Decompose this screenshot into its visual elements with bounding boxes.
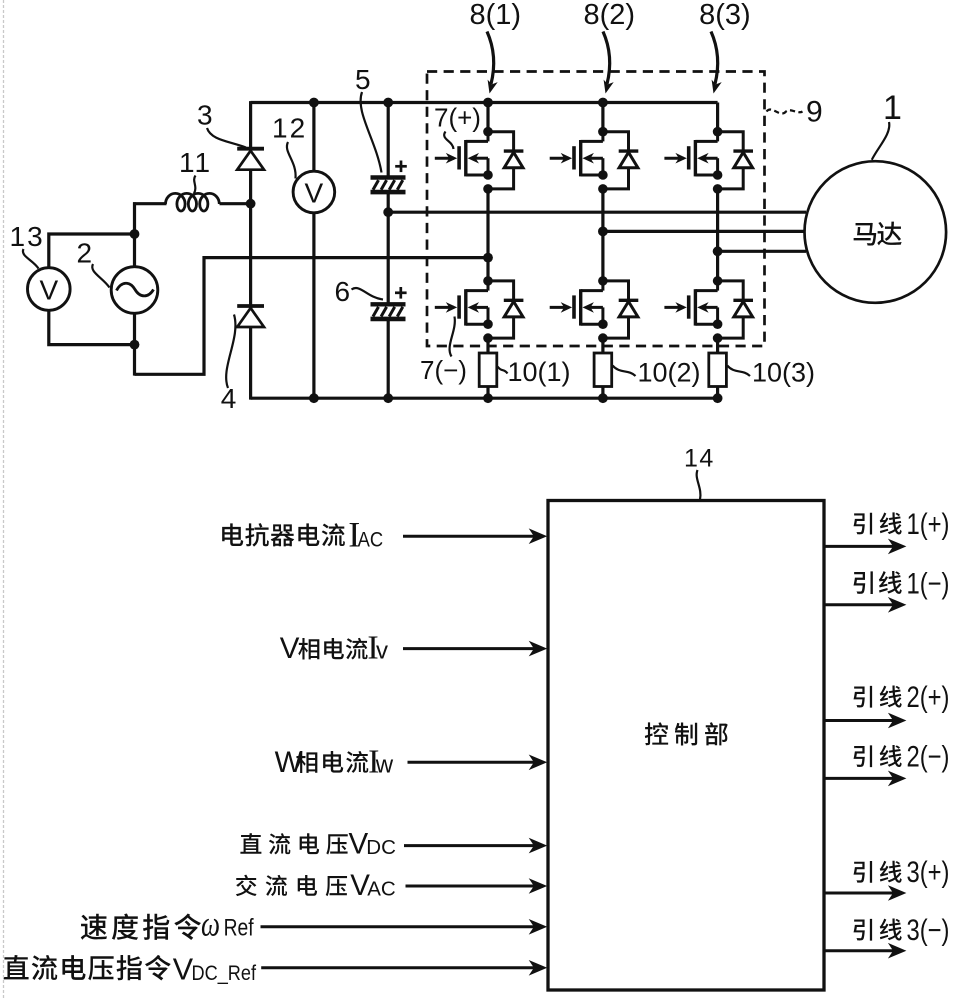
- label 6 leader: [352, 288, 384, 299]
- label W-phase current Iw (hanzi): [296, 751, 368, 773]
- lead-wire 1(-) output arrow: [824, 603, 893, 606]
- label 13 leader: [23, 249, 39, 269]
- label 7(+) leader: [444, 132, 453, 150]
- svg-text:DC_Ref: DC_Ref: [192, 962, 257, 985]
- node AC / leg-1 midpoint: [483, 253, 493, 263]
- resistor 10(1): [479, 353, 497, 387]
- node bottom bus / leg 2: [598, 393, 608, 403]
- svg-text:W: W: [275, 746, 303, 779]
- label DC voltage Vdc (hanzi): [240, 833, 347, 854]
- resistor 10(2): [594, 353, 612, 387]
- label 10(2) leader: [613, 366, 636, 377]
- label 14 leader: [697, 470, 701, 500]
- svg-text:2(−): 2(−): [907, 741, 950, 774]
- svg-text:AC: AC: [367, 877, 396, 900]
- svg-text:8(1): 8(1): [470, 0, 522, 31]
- transistor Q3 upper (leg 3): [664, 127, 753, 194]
- lead-wire 3(+) output arrow: [824, 892, 893, 895]
- capacitor 6: [371, 304, 406, 319]
- svg-text:V: V: [280, 632, 300, 665]
- wire leg-3 foot: [716, 387, 719, 399]
- svg-text:9: 9: [806, 96, 823, 129]
- svg-text:V: V: [39, 274, 58, 305]
- wire capacitor leg lower: [387, 318, 390, 398]
- node capacitor midpoint: [383, 207, 393, 217]
- wire capacitor leg middle: [387, 194, 390, 304]
- capacitor 5 plus: [395, 161, 407, 173]
- svg-text:V: V: [305, 177, 324, 208]
- svg-text:AC: AC: [358, 528, 384, 552]
- svg-text:7(+): 7(+): [434, 102, 481, 132]
- label DC voltage command (hanzi): [4, 955, 171, 981]
- label 10(3) leader: [727, 366, 750, 377]
- wire top DC+ bus: [251, 101, 718, 104]
- svg-text:w: w: [375, 752, 394, 779]
- svg-text:14: 14: [684, 445, 715, 473]
- svg-text:10(2): 10(2): [638, 358, 701, 388]
- wire leg-2 lower: [601, 338, 604, 353]
- node rectifier midpoint: [246, 199, 256, 209]
- wire voltmeter-13 top branch: [49, 234, 135, 268]
- label 5 leader: [361, 92, 382, 173]
- svg-text:8(2): 8(2): [584, 0, 636, 31]
- AC source 2: [111, 267, 158, 314]
- svg-text:DC: DC: [366, 836, 396, 859]
- wire leg-1 foot: [486, 387, 489, 399]
- label lead-wire 1(−) (hanzi): [854, 571, 902, 594]
- label 4 leader: [226, 315, 235, 389]
- transistor Q2 lower (leg 2): [550, 276, 639, 343]
- svg-text:1(+): 1(+): [907, 508, 950, 541]
- Vac input arrow: [406, 885, 535, 888]
- wire leg-3 mid: [716, 189, 719, 281]
- node AC upper: [130, 229, 140, 239]
- Vdc-ref input arrow: [261, 966, 534, 969]
- node bottom bus / capacitor leg: [383, 393, 393, 403]
- IAC input arrow: [403, 535, 534, 538]
- wire leg-1 upper: [486, 103, 489, 132]
- svg-text:3(+): 3(+): [907, 856, 950, 889]
- Vdc input arrow: [404, 844, 534, 847]
- AC source 2 sine: [117, 283, 154, 296]
- label lead-wire 3(−) (hanzi): [854, 918, 902, 940]
- wire leg-2 upper: [601, 103, 604, 132]
- Iw input arrow: [408, 761, 535, 764]
- label 12 leader: [287, 142, 296, 179]
- wire leg-1 mid: [486, 189, 489, 281]
- svg-text:1(−): 1(−): [907, 567, 950, 600]
- motor 1 text: [854, 222, 902, 246]
- label 7(-) leader: [450, 317, 455, 357]
- label lead-wire 2(−) (hanzi): [854, 745, 902, 767]
- node top bus / leg 1: [483, 98, 493, 108]
- svg-text:v: v: [376, 637, 388, 664]
- wire AC source vertical lower: [133, 313, 136, 376]
- wire leg-2 mid: [601, 189, 604, 281]
- label 8(1) leader arrow: [487, 32, 494, 85]
- svg-text:10(1): 10(1): [508, 357, 571, 387]
- capacitor 5: [371, 178, 406, 193]
- motor 1 circle: [805, 161, 947, 303]
- lead-wire 2(+) output arrow: [824, 719, 893, 722]
- transistor Q3 lower (leg 3): [664, 276, 753, 343]
- control block 14 text: [645, 722, 728, 745]
- wire leg-2 foot: [601, 387, 604, 399]
- svg-text:11: 11: [179, 147, 212, 178]
- omega-ref input arrow: [261, 925, 535, 928]
- transistor Q1 upper (leg 1): [435, 127, 524, 194]
- label speed command (hanzi): [81, 914, 201, 940]
- wire inductor input: [133, 202, 166, 205]
- label AC voltage Vac (hanzi): [236, 875, 347, 897]
- wire voltmeter-13 bottom branch: [49, 310, 135, 345]
- inverter dashed box 9: [427, 72, 765, 347]
- wire capacitor leg upper: [387, 103, 390, 177]
- label 10(1) leader: [498, 367, 508, 374]
- wire rectifier leg vertical: [249, 101, 252, 400]
- node bottom bus / leg 1: [483, 393, 493, 403]
- scan artifact left edge: [3, 0, 5, 1000]
- label 11 leader: [194, 176, 196, 194]
- control block 14 box: [548, 501, 824, 991]
- label 8(2) leader arrow: [603, 32, 610, 85]
- node top bus / voltmeter: [309, 98, 319, 108]
- capacitor 6 plus: [395, 287, 407, 299]
- svg-text:3(−): 3(−): [907, 914, 950, 947]
- wire leg-1 lower: [486, 338, 489, 353]
- svg-text:8(3): 8(3): [699, 0, 751, 31]
- voltmeter 12: [293, 171, 335, 213]
- wire phase-U line to motor: [388, 211, 806, 214]
- node phase W: [713, 246, 723, 256]
- resistor 10(3): [709, 353, 727, 387]
- wire leg-3 lower: [716, 338, 719, 353]
- svg-text:10(3): 10(3): [752, 358, 815, 388]
- wire phase-V line to motor: [603, 230, 805, 233]
- label lead-wire 1(+) (hanzi): [854, 512, 902, 534]
- label 1 leader: [872, 122, 890, 160]
- svg-text:1: 1: [883, 89, 902, 127]
- svg-text:2: 2: [77, 237, 93, 268]
- lead-wire 3(-) output arrow: [824, 949, 893, 952]
- node bottom bus / voltmeter: [309, 393, 319, 403]
- label 3 leader: [207, 128, 246, 148]
- node phase V: [598, 227, 608, 237]
- label lead-wire 3(+) (hanzi): [854, 861, 902, 883]
- transistor Q1 lower (leg 1): [435, 276, 524, 343]
- wire voltmeter-12 branch upper: [312, 103, 315, 172]
- svg-text:7(−): 7(−): [420, 355, 467, 385]
- label 9 leader: [767, 109, 803, 113]
- label V-phase current Iv (hanzi): [298, 638, 367, 660]
- label reactor current IAC (hanzi): [222, 523, 345, 546]
- node bottom bus / leg 3: [713, 393, 723, 403]
- svg-text:2(+): 2(+): [907, 681, 950, 714]
- node top bus / leg 2: [598, 98, 608, 108]
- wire voltmeter-12 branch lower: [312, 213, 315, 399]
- wire phase-W line to motor: [718, 250, 806, 253]
- label 8(3) leader arrow: [711, 32, 718, 85]
- wire leg-3 upper: [716, 103, 719, 132]
- svg-text:Ref: Ref: [224, 914, 254, 941]
- wire AC return to leg-1 midpoint: [135, 258, 489, 375]
- svg-text:ω: ω: [201, 904, 220, 944]
- svg-text:6: 6: [335, 276, 351, 307]
- label lead-wire 2(+) (hanzi): [854, 685, 902, 707]
- wire AC source vertical upper: [133, 202, 136, 267]
- diode 4: [237, 306, 264, 327]
- lead-wire 1(+) output arrow: [824, 545, 893, 548]
- diode 3: [237, 149, 264, 170]
- voltmeter 13: [28, 268, 71, 311]
- svg-text:12: 12: [272, 113, 307, 144]
- wire bottom DC- bus: [251, 397, 718, 400]
- svg-text:5: 5: [355, 64, 371, 95]
- transistor Q2 upper (leg 2): [550, 127, 639, 194]
- label 2 leader: [92, 264, 109, 288]
- node top bus / capacitor leg: [383, 98, 393, 108]
- node AC lower: [130, 340, 140, 350]
- svg-text:13: 13: [10, 221, 45, 252]
- wire inductor output: [220, 202, 251, 205]
- svg-text:3: 3: [197, 99, 213, 130]
- lead-wire 2(-) output arrow: [824, 777, 893, 780]
- inductor 11: [166, 193, 220, 211]
- Iv input arrow: [403, 647, 534, 650]
